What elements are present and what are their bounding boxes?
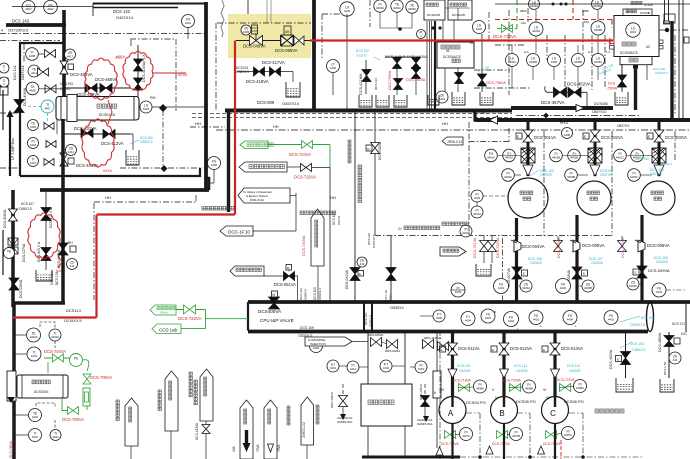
- heater 3 vessel: [56, 97, 139, 121]
- svg-text:DCS 171: DCS 171: [672, 322, 685, 326]
- svg-text:DCS 113: DCS 113: [313, 287, 317, 300]
- open arrows bottom: [436, 446, 545, 455]
- valve DRS-166VA: [421, 396, 430, 407]
- zone dash: [321, 14, 323, 58]
- svg-text:4403A: 4403A: [504, 175, 512, 179]
- svg-text:4406: 4406: [436, 316, 443, 320]
- svg-text:4403B: 4403B: [584, 286, 592, 290]
- hotwell tab: [610, 40, 615, 44]
- svg-text:-759VA: -759VA: [606, 87, 618, 91]
- instrument PI-4408B: [523, 380, 536, 393]
- condenser 1 shell boxes: [424, 0, 445, 20]
- svg-text:DCS-402VA: DCS-402VA: [609, 349, 613, 369]
- label 2x recirc: [442, 222, 446, 226]
- cloud D: [28, 213, 60, 259]
- arrow up: [7, 110, 14, 117]
- stub v: [247, 0, 249, 14]
- red pipe v235: [234, 41, 236, 215]
- svg-text:DCS-743VA: DCS-743VA: [557, 237, 561, 258]
- valve DCS-011VA: [448, 343, 458, 355]
- svg-text:DCS0A/B: DCS0A/B: [452, 13, 465, 17]
- instrument ZS in yellow: [241, 25, 251, 35]
- svg-text:4413: 4413: [68, 150, 75, 154]
- label: [158, 390, 161, 393]
- green valve A: [445, 431, 456, 439]
- instrument TE-4411: [28, 65, 40, 77]
- svg-text:DCS-724VA: DCS-724VA: [289, 152, 311, 157]
- instrument edge1: [0, 63, 9, 73]
- flow arrow: [576, 105, 584, 112]
- reducer DCS-011VA: [448, 369, 457, 378]
- svg-text:DCS-706VA: DCS-706VA: [62, 417, 84, 422]
- svg-text:4408C: 4408C: [576, 386, 584, 390]
- svg-text:4404: 4404: [313, 346, 320, 350]
- svg-text:O889X4: O889X4: [304, 289, 308, 300]
- svg-text:4405B: 4405B: [574, 60, 582, 64]
- instrument ZS-443b: [357, 257, 367, 267]
- svg-text:IV: IV: [441, 388, 445, 392]
- green valve B: [497, 431, 508, 439]
- valve DCS-402VAr: [621, 352, 631, 365]
- header pipe bottom: [248, 330, 648, 334]
- valve DCS-414VA: [134, 78, 143, 90]
- zone dash v163: [162, 110, 164, 165]
- column right 2: [678, 0, 680, 118]
- label J09001: [287, 406, 290, 409]
- reducer DCS-003VA: [654, 165, 664, 176]
- label: [116, 400, 119, 403]
- gate valve DCS-004VA: [514, 240, 521, 252]
- diamond junction: [161, 165, 168, 172]
- svg-text:O426X8: O426X8: [530, 261, 542, 265]
- svg-text:4401C: 4401C: [616, 156, 624, 160]
- pipe frame left v: [11, 190, 15, 307]
- recirc valves pair: [480, 241, 489, 252]
- wire: [130, 446, 132, 459]
- pump 2: [577, 181, 611, 215]
- gray verticals: [266, 0, 268, 23]
- valve pair DCS-457VA: [554, 87, 567, 97]
- valve left col 1: [9, 209, 18, 221]
- instrument FS-4401: [182, 15, 195, 28]
- svg-text:#X#: #X#: [56, 269, 62, 273]
- svg-text:4402: 4402: [533, 318, 540, 322]
- zone dash long: [216, 129, 690, 131]
- zone dash v547: [543, 131, 545, 236]
- flag v 2: [264, 400, 277, 459]
- svg-text:O530X9: O530X9: [650, 172, 662, 176]
- svg-text:4401: 4401: [498, 286, 505, 290]
- svg-text:DCS-027VA: DCS-027VA: [22, 243, 26, 262]
- svg-text:4401: 4401: [31, 354, 38, 358]
- wires: [379, 12, 381, 28]
- svg-text:4407: 4407: [44, 107, 51, 111]
- svg-text:442: 442: [70, 264, 75, 268]
- pipe suction header: [476, 118, 690, 122]
- svg-text:DCS-704VA: DCS-704VA: [44, 349, 66, 354]
- svg-text:DCS-730VA: DCS-730VA: [493, 34, 517, 39]
- svg-text:O457X14: O457X14: [116, 15, 134, 20]
- green flag: [240, 141, 268, 149]
- wire zs: [519, 285, 520, 287]
- pipe drop DCS-012VA: [502, 332, 505, 397]
- pump 3: [641, 181, 675, 215]
- zone dash h202: [94, 201, 197, 203]
- instrument FS-4404b: [310, 340, 323, 353]
- wire: [152, 106, 206, 108]
- valve: [44, 123, 54, 130]
- instrument LS-4619: [626, 23, 640, 37]
- green valve preC: [560, 384, 571, 392]
- heater flange: [67, 95, 77, 122]
- zone dash v190: [195, 195, 197, 202]
- instrument PT-4406: [433, 310, 445, 322]
- svg-text:DCS01A/CE: DCS01A/CE: [443, 55, 461, 59]
- relief valve DCS-404VA: [60, 153, 68, 166]
- recirc valve 2: [554, 241, 563, 252]
- wire stubs: [14, 334, 26, 336]
- zone dash top2: [0, 40, 60, 42]
- svg-text:DCS01SX: DCS01SX: [99, 113, 116, 117]
- wires circles: [535, 36, 537, 53]
- valve DCS-722VA green: [184, 305, 196, 314]
- junction dots: [552, 3, 555, 6]
- green link: [62, 397, 67, 411]
- svg-text:SAMPLING: SAMPLING: [417, 422, 433, 426]
- svg-text:HH: HH: [105, 195, 111, 200]
- instrument PI-4403B lower: [565, 169, 578, 182]
- dash h127: [190, 126, 225, 128]
- instrument TI-4408: [26, 48, 39, 61]
- red end bars: [609, 38, 611, 46]
- strainer DCS-002VA: [588, 148, 602, 163]
- zone dash v502: [502, 238, 504, 300]
- zone dashes tr2: [488, 12, 490, 40]
- svg-text:DCS-720VA: DCS-720VA: [503, 379, 522, 383]
- heater label: [97, 104, 101, 108]
- svg-text:4402A: 4402A: [505, 156, 513, 160]
- svg-text:4414: 4414: [350, 367, 357, 371]
- red leader B: [152, 72, 186, 74]
- red pipe h40: [310, 39, 613, 41]
- svg-text:AB: AB: [285, 30, 289, 34]
- pipe below cooler: [12, 401, 16, 459]
- right band stub: [685, 304, 687, 332]
- pipe discharge DCS-006VA: [640, 215, 643, 302]
- svg-text:O42639: O42639: [459, 369, 471, 373]
- svg-text:DCS-413VA: DCS-413VA: [195, 422, 199, 440]
- svg-text:4423: 4423: [485, 316, 492, 320]
- svg-text:E: E: [492, 348, 494, 352]
- check valve DCS-007VA: [512, 267, 522, 279]
- svg-text:4407C: 4407C: [564, 433, 572, 437]
- instrument PI-4407C: [562, 427, 575, 440]
- svg-text:DCS06 PO: DCS06 PO: [564, 399, 584, 404]
- svg-text:DSD-3C10: DSD-3C10: [250, 198, 264, 202]
- svg-text:O530X1: O530X1: [390, 306, 404, 310]
- instrument LS-4420: [473, 21, 486, 34]
- svg-text:4401: 4401: [32, 435, 39, 439]
- svg-text:O38X2.5: O38X2.5: [632, 348, 645, 352]
- zone dash v94: [93, 203, 95, 300]
- svg-text:DCS-009VA: DCS-009VA: [648, 268, 670, 273]
- wire: [317, 266, 319, 302]
- svg-text:DCS-026VA: DCS-026VA: [19, 279, 23, 298]
- valve DCS-460VA: [100, 84, 112, 93]
- green down: [86, 406, 88, 410]
- instrument PI-4407B: [510, 428, 523, 441]
- wire: [66, 87, 130, 89]
- instrument PI-4407A: [460, 428, 473, 441]
- svg-text:O426X8: O426X8: [656, 260, 668, 264]
- pipe drop DCS-003VA: [658, 120, 661, 176]
- wire: [264, 275, 284, 277]
- svg-text:DCS.116: DCS.116: [374, 78, 378, 90]
- green valve preA: [459, 384, 470, 392]
- svg-text:E: E: [543, 348, 545, 352]
- valve DCS-043VA: [371, 143, 380, 154]
- svg-text:DCS-742VA: DCS-742VA: [496, 237, 500, 258]
- wire: [420, 315, 433, 317]
- instrument ZS-4415b: [436, 91, 448, 103]
- wires under condenser1: [442, 20, 444, 42]
- pipe drop DCS-402VA: [625, 333, 627, 378]
- svg-text:O437X14: O437X14: [21, 66, 25, 80]
- instrument PI-4414: [347, 361, 359, 373]
- flag v 3: [301, 397, 314, 445]
- pipe v375: [374, 110, 376, 235]
- svg-text:DCS-717VA: DCS-717VA: [492, 442, 511, 446]
- svg-text:DRS-M5VA: DRS-M5VA: [368, 333, 383, 337]
- instrument TE-4405A: [406, 1, 418, 13]
- svg-text:4403B: 4403B: [594, 28, 602, 32]
- svg-text:4404A: 4404A: [393, 6, 401, 10]
- valve DCS-045VA: [250, 36, 263, 46]
- instrument PT-4402: [380, 360, 392, 372]
- svg-text:4415: 4415: [439, 97, 446, 101]
- flag v JR301: [125, 398, 138, 446]
- svg-text:DCS-413VA(P)-X: DCS-413VA(P)-X: [142, 54, 146, 82]
- svg-text:DCS: DCS: [608, 82, 616, 86]
- instrument PI-4408C: [574, 380, 587, 393]
- svg-text:DCS.116: DCS.116: [367, 233, 371, 245]
- instrument FS-4401d: [494, 279, 509, 294]
- instrument TI-4407 cyan: [41, 100, 54, 113]
- drain box: [286, 82, 300, 97]
- svg-text:4407B: 4407B: [512, 434, 520, 438]
- instrument TI-4401: [27, 347, 41, 361]
- dash row right: [516, 115, 640, 117]
- svg-text:DCS-809: DCS-809: [257, 100, 275, 105]
- svg-text:DCS-006VA: DCS-006VA: [647, 243, 670, 248]
- instrument LS-4404B: [592, 0, 603, 10]
- svg-text:M: M: [273, 293, 276, 297]
- svg-text:4405A: 4405A: [408, 7, 416, 11]
- instrument LS-4402A: [506, 54, 519, 67]
- red pipe main: [13, 316, 97, 318]
- green valve C: [546, 431, 557, 439]
- circles on band r1: [461, 312, 475, 326]
- condenser 1 hotwell: [437, 42, 474, 68]
- instrument PI-4403C lower: [628, 169, 641, 182]
- red pipe v96: [95, 215, 97, 318]
- wire ccd: [181, 328, 206, 330]
- reducer DCS-012VA: [500, 369, 509, 378]
- valve DCS-002VA: [590, 130, 600, 142]
- drain box: [452, 92, 465, 105]
- drain box: [36, 270, 52, 281]
- pipe corner 227: [227, 112, 229, 212]
- pipe discharge DCS-005VA: [575, 215, 578, 302]
- svg-text:CCD Lab: CCD Lab: [159, 328, 178, 333]
- svg-text:DRS-1125VA: DRS-1125VA: [424, 336, 442, 340]
- svg-text:4402: 4402: [560, 286, 567, 290]
- svg-text:DCS 141: DCS 141: [13, 65, 17, 80]
- pipe riser: [62, 10, 66, 97]
- svg-text:O42639: O42639: [516, 369, 528, 373]
- svg-text:4407: 4407: [30, 161, 37, 165]
- wire: [332, 73, 334, 95]
- svg-text:4401: 4401: [185, 21, 192, 25]
- dash after JR26: [469, 141, 509, 143]
- circles on band r2: [481, 309, 495, 323]
- instrument FS-4402d: [556, 279, 571, 294]
- valve DCS-003VA: [654, 130, 664, 142]
- pipe drop DCS-002VA: [594, 120, 597, 176]
- wire: [253, 230, 296, 232]
- svg-text:HH01: HH01: [633, 119, 642, 123]
- instrument ZS-4403B: [582, 280, 594, 292]
- valve: [45, 50, 56, 58]
- valves DRS: [371, 338, 382, 347]
- valve DCS-738VA: [478, 74, 487, 86]
- svg-text:B: B: [499, 409, 504, 418]
- valve DCS-440VA a: [393, 58, 402, 69]
- svg-text:O219XX.5: O219XX.5: [64, 319, 82, 323]
- wire: [170, 431, 172, 459]
- svg-text:O84?X9: O84?X9: [474, 119, 485, 123]
- svg-text:E: E: [523, 272, 525, 276]
- drain pipe: [292, 72, 294, 83]
- drain box: [126, 150, 139, 165]
- pipe frame right v: [61, 119, 65, 303]
- svg-text:DCS-045VA: DCS-045VA: [243, 44, 266, 49]
- svg-text:INJECTION: INJECTION: [310, 342, 326, 346]
- valve: [44, 159, 54, 166]
- wire: [312, 167, 330, 169]
- zone dash top: [0, 33, 205, 35]
- instrument FS-4403d: [652, 283, 666, 297]
- svg-text:A: A: [448, 409, 454, 418]
- svg-text:O530X11: O530X11: [369, 314, 373, 327]
- svg-text:4402: 4402: [32, 415, 39, 419]
- green instrument PE: [70, 354, 83, 367]
- reducer DCS-013VA: [551, 369, 560, 378]
- instrument PI-4402C: [631, 149, 644, 162]
- header right cap: [647, 303, 654, 332]
- valve DCS-068VA: [281, 36, 294, 46]
- wire: [205, 421, 207, 459]
- svg-text:DCS-412VA: DCS-412VA: [101, 141, 124, 146]
- wire: [139, 106, 140, 108]
- svg-text:DCS-068VA: DCS-068VA: [275, 48, 298, 53]
- instrument LT-4402: [327, 60, 340, 73]
- valve: [45, 85, 56, 93]
- wire: [547, 91, 587, 93]
- parallel risers: [426, 21, 428, 110]
- cloud A: [85, 58, 117, 100]
- cooler vessel: [17, 375, 68, 398]
- instrument TE-4402b: [29, 409, 42, 422]
- zone dash v24: [23, 44, 25, 62]
- wire up2: [404, 330, 406, 384]
- instrument ZS-4413: [66, 145, 77, 156]
- svg-text:4402: 4402: [383, 366, 390, 370]
- svg-text:LP 3 IMP Box: LP 3 IMP Box: [11, 138, 15, 160]
- svg-text:4403: 4403: [656, 290, 663, 294]
- svg-text:4403C: 4403C: [630, 175, 638, 179]
- svg-text:VI: VI: [546, 396, 549, 400]
- valve DCS-725VA: [301, 164, 312, 172]
- highlight yellow: [228, 14, 311, 58]
- svg-text:O2733X3.5: O2733X3.5: [8, 28, 29, 33]
- flag v ningbu: [200, 369, 213, 421]
- svg-text:DCC-1F10: DCC-1F10: [228, 230, 250, 235]
- svg-text:SAMPLING: SAMPLING: [337, 420, 353, 424]
- valve DCS-051VA: [284, 272, 295, 281]
- zone dash v176: [175, 39, 177, 111]
- pipe frame bottom: [13, 301, 65, 305]
- svg-text:DCS-480VA: DCS-480VA: [658, 332, 662, 352]
- flow arrow suction: [490, 116, 498, 124]
- drain box r2: [660, 379, 674, 392]
- svg-text:DCS01SX: DCS01SX: [34, 390, 49, 394]
- svg-text:DCS-406VA: DCS-406VA: [23, 87, 27, 106]
- svg-text:E: E: [583, 272, 585, 276]
- svg-text:DCS 141: DCS 141: [473, 111, 486, 115]
- condenser 2 shell box: [623, 9, 652, 16]
- green valve preB: [510, 384, 521, 392]
- instrument PI col a: [471, 190, 483, 202]
- svg-text:4402: 4402: [25, 7, 32, 11]
- pipe DCS142 double line: [93, 3, 206, 5]
- pipe drop DCS-013VA: [553, 332, 556, 397]
- svg-text:DCS 121: DCS 121: [514, 364, 528, 368]
- valve DCS-013VA: [550, 343, 560, 355]
- flag v yiqi: [165, 371, 178, 431]
- green glass: [83, 388, 90, 406]
- red leader D: [58, 256, 62, 268]
- wire: [621, 64, 623, 92]
- svg-text:H.A: H.A: [588, 50, 593, 54]
- svg-text:E: E: [584, 135, 586, 139]
- wire: [476, 202, 478, 206]
- svg-text:4411: 4411: [31, 71, 37, 75]
- instrument PI-4408A: [474, 380, 487, 393]
- valve DCS-401VA: [81, 129, 93, 138]
- svg-text:DCS 141: DCS 141: [612, 118, 626, 122]
- valve: [46, 141, 56, 148]
- svg-text:4408: 4408: [29, 89, 36, 93]
- drain box recirc: [476, 264, 491, 276]
- svg-text:J09001-02: J09001-02: [302, 422, 306, 438]
- svg-text:CPU I&P VALVE: CPU I&P VALVE: [260, 318, 294, 323]
- pipe v355: [354, 111, 356, 302]
- svg-text:#XX#: #XX#: [178, 73, 188, 77]
- wire pi links: [455, 434, 459, 436]
- valve DCS-413VA: [134, 59, 143, 71]
- svg-text:4415: 4415: [418, 367, 425, 371]
